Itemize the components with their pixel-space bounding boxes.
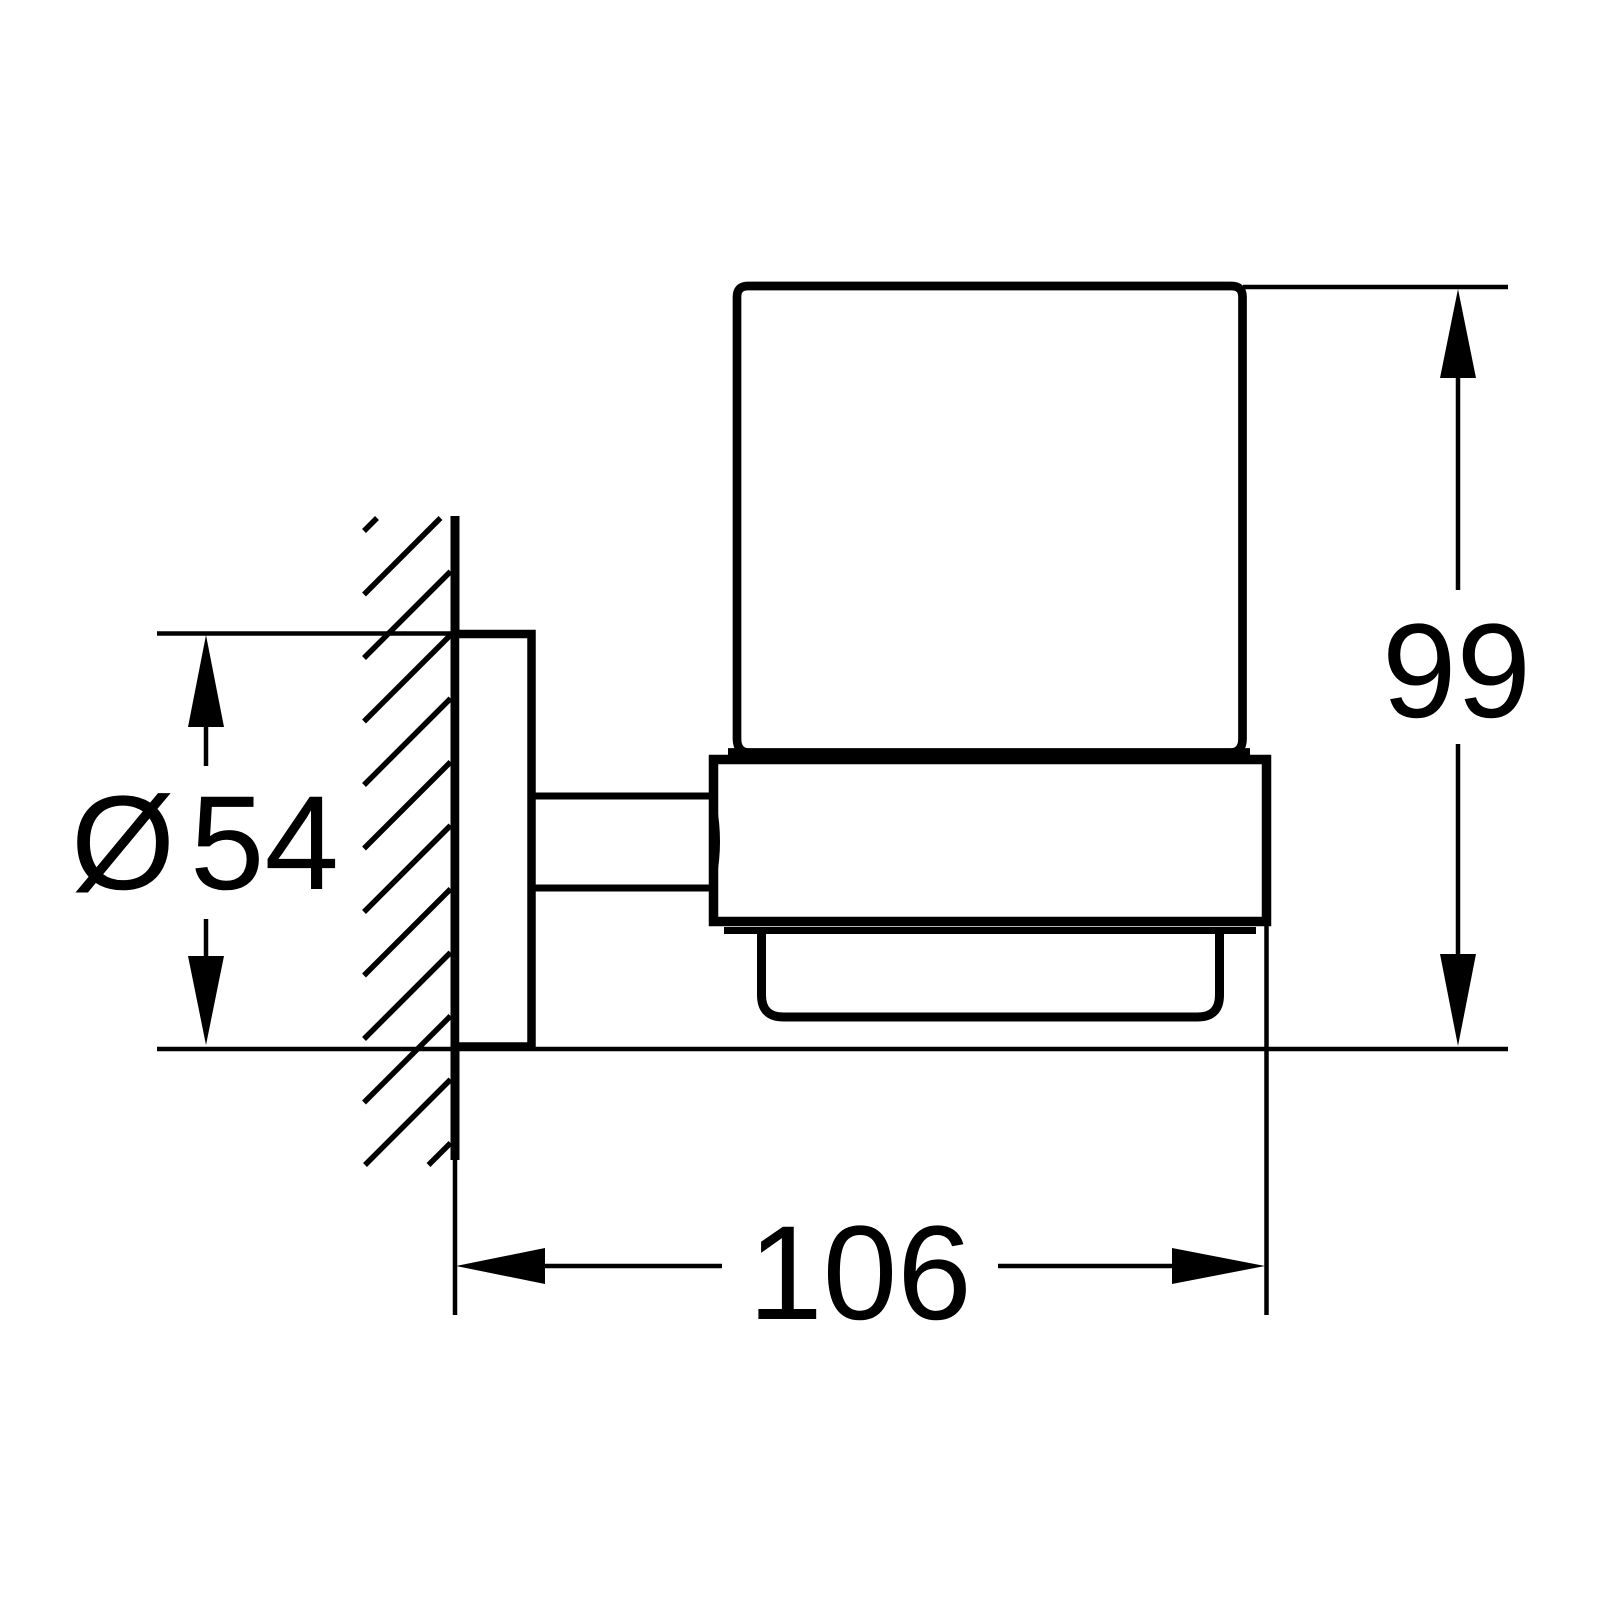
extension line below wall (for 106) [453,1160,458,1315]
glass lower section (below ring) [762,927,1220,1017]
dimension 106: line [545,1264,722,1269]
glass tumbler upper body [737,286,1243,753]
glass bottom edge (seat line over ring top) [728,748,1250,757]
extension line bottom (long reference line) [157,1047,1508,1052]
wall hatching [364,518,451,1165]
dimension 99: line [1456,378,1461,590]
svg-text:106: 106 [748,1199,972,1348]
dimension 99: bottom arrow [1440,954,1476,1046]
dimension Ø54: bottom arrow [188,956,224,1045]
extension line top-left (plate top reference) [157,631,455,636]
holder ring (side view) [714,760,1267,922]
svg-text:99: 99 [1382,597,1531,746]
dimension Ø54: top arrow [188,635,224,727]
extension line below holder right edge (for 106) [1264,921,1269,1315]
wall line [451,516,460,1160]
arm top line [532,793,714,800]
arm bottom line [532,885,714,892]
dimension Ø54: line [204,727,209,766]
svg-text:Ø: Ø [71,769,175,918]
arm end-cap arc inside ring [714,805,718,878]
glass lip line below ring [724,927,1256,934]
dimension 99: top arrow [1440,289,1476,378]
wall plate (escutcheon) [455,634,532,1047]
extension line top-right (glass top reference) [1243,285,1508,290]
svg-text:54: 54 [190,769,339,918]
dimension 106: right arrow [1172,1248,1265,1284]
dimension 106: left arrow [456,1248,545,1284]
